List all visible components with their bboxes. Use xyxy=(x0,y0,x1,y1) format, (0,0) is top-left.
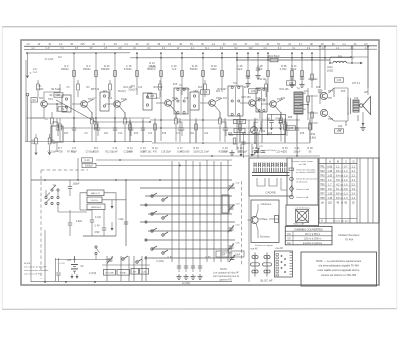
svg-text:1,35: 1,35 xyxy=(327,192,332,195)
svg-text:Les valeurs du bloc HF: Les valeurs du bloc HF xyxy=(24,266,47,269)
wire lower rail left xyxy=(25,141,152,143)
transistor TR6 xyxy=(270,98,283,107)
wire mid rail 1 xyxy=(26,117,150,119)
wire mid rail 2 xyxy=(150,119,300,121)
band switch dashed boundary xyxy=(241,181,243,265)
svg-text:R-B: R-B xyxy=(64,133,68,135)
svg-text:TK 464: TK 464 xyxy=(345,238,354,242)
wire vertical feeds from bus xyxy=(73,45,369,141)
wire output collectors xyxy=(329,88,349,121)
ground arrows oscillator xyxy=(111,200,114,231)
svg-text:R35: R35 xyxy=(288,116,293,119)
switch S1 xyxy=(45,185,59,205)
transistor TR5 xyxy=(209,97,222,106)
note antenne text xyxy=(24,262,49,276)
svg-text:GO: GO xyxy=(287,238,291,240)
label vue AV xyxy=(250,247,283,251)
svg-text:C18 25μF: C18 25μF xyxy=(161,151,172,153)
capacitor C39 4.7pF xyxy=(68,210,83,236)
antenna terminal xyxy=(26,53,32,142)
svg-text:4,7pF: 4,7pF xyxy=(95,216,102,219)
svg-text:C9 50μF: C9 50μF xyxy=(86,151,95,153)
arrows to cadre and C47 cluster xyxy=(228,119,268,158)
page right edge xyxy=(396,27,398,309)
svg-text:R25 470: R25 470 xyxy=(219,151,228,153)
svg-text:MF2: MF2 xyxy=(194,90,199,93)
svg-text:C24: C24 xyxy=(251,90,256,93)
svg-text:gamme PO.: gamme PO. xyxy=(220,279,233,282)
svg-text:C22: C22 xyxy=(204,133,209,135)
label box C24 xyxy=(249,89,258,93)
svg-text:1nF: 1nF xyxy=(172,67,177,71)
svg-text:C38: C38 xyxy=(354,98,359,100)
svg-text:1,45: 1,45 xyxy=(327,170,332,173)
svg-text:TR7: TR7 xyxy=(320,193,325,195)
svg-text:9V: 9V xyxy=(190,43,193,46)
measurement legend contents xyxy=(289,160,317,199)
svg-text:4V5: 4V5 xyxy=(80,43,85,46)
svg-text:Courant en mA: Courant en mA xyxy=(296,188,309,191)
bloc HF dashed boundary xyxy=(41,170,88,279)
label box C2 xyxy=(58,107,67,111)
svg-text:PO: PO xyxy=(287,234,291,236)
svg-text:TR1: TR1 xyxy=(320,166,325,168)
svg-text:4V: 4V xyxy=(48,43,51,46)
table bottom note xyxy=(319,218,357,222)
upper resistor/capacitor clusters with labels xyxy=(61,64,333,77)
oscillator coil L2 xyxy=(51,118,63,152)
svg-text:en voltmètre 20000Ω/V: en voltmètre 20000Ω/V xyxy=(296,171,316,174)
svg-text:1500Ω: 1500Ω xyxy=(61,67,69,71)
svg-text:C33: C33 xyxy=(337,79,342,82)
label G ON xyxy=(182,281,190,285)
AVC filter loop xyxy=(254,114,286,134)
svg-text:TR3: TR3 xyxy=(121,98,126,101)
svg-text:4,7kΩ: 4,7kΩ xyxy=(280,67,287,71)
svg-text:quantité à système: quantité à système xyxy=(303,242,323,245)
transistor legend symbol xyxy=(248,204,259,238)
wire top bus 2 xyxy=(24,48,377,51)
bloc HF connector pins xyxy=(251,253,272,277)
label CADRE xyxy=(265,191,276,195)
svg-text:C12: C12 xyxy=(118,133,123,135)
label box C36 xyxy=(335,129,344,133)
wire osc mesh xyxy=(46,180,126,246)
wire lower rail mid xyxy=(152,142,310,144)
svg-text:Tensions contin. mesur.: Tensions contin. mesur. xyxy=(292,160,314,163)
resistor R41 feed line xyxy=(236,54,330,62)
svg-text:7R: 7R xyxy=(52,185,55,188)
wire PU column xyxy=(330,57,368,64)
scan texture micro labels xyxy=(33,57,359,135)
socket view drawing xyxy=(294,207,310,225)
svg-text:C37 0,1: C37 0,1 xyxy=(352,82,361,85)
wire stubs lower xyxy=(130,88,358,156)
top bus labels row2 xyxy=(31,48,368,50)
potentiometer volume xyxy=(251,122,266,133)
svg-text:470: 470 xyxy=(153,150,158,153)
svg-text:R 36: R 36 xyxy=(281,64,287,68)
svg-text:GAMMES COUVERTES: GAMMES COUVERTES xyxy=(294,227,323,231)
svg-text:50μF: 50μF xyxy=(237,67,243,71)
svg-text:1,5MΩ: 1,5MΩ xyxy=(37,89,44,91)
svg-text:R27 150: R27 150 xyxy=(241,96,251,99)
wires transistor connections xyxy=(72,98,283,120)
wire feedback xyxy=(376,103,384,105)
svg-text:HP: HP xyxy=(364,90,368,94)
trimmer capacitors band switch xyxy=(228,183,240,251)
svg-text:10nF: 10nF xyxy=(220,254,226,257)
svg-text:C-45 10nF: C-45 10nF xyxy=(265,150,276,152)
base bias resistors xyxy=(37,80,268,97)
svg-text:C32 4n7: C32 4n7 xyxy=(276,151,285,153)
wire rail 134 xyxy=(228,134,286,136)
wire TR1 collector xyxy=(44,84,60,101)
band switch contacts xyxy=(145,193,168,259)
svg-text:R15 39k: R15 39k xyxy=(154,86,164,89)
svg-text:Base: Base xyxy=(262,218,268,221)
svg-text:10nF: 10nF xyxy=(112,150,118,153)
svg-text:C22 10nF: C22 10nF xyxy=(199,151,210,153)
capacitor C40 xyxy=(90,209,106,236)
svg-text:C14: C14 xyxy=(138,87,143,89)
svg-text:TR1: TR1 xyxy=(39,97,44,100)
svg-text:6,8kΩ: 6,8kΩ xyxy=(310,136,317,139)
svg-text:C 16: C 16 xyxy=(126,64,132,68)
wire AGC xyxy=(56,100,151,123)
label box C19 xyxy=(201,90,210,94)
cadre box xyxy=(249,158,292,196)
svg-text:1V: 1V xyxy=(177,48,180,50)
svg-text:C: C xyxy=(345,159,347,163)
svg-text:mesure vol. gen.: mesure vol. gen. xyxy=(333,220,350,223)
band switch side box xyxy=(222,195,229,213)
svg-text:C12 4n7: C12 4n7 xyxy=(124,151,133,153)
svg-text:C 40: C 40 xyxy=(94,225,100,228)
page bottom edge xyxy=(2,308,397,311)
output bias network xyxy=(311,45,323,130)
transistor TR2 xyxy=(81,98,94,107)
svg-text:187 m à 569 m: 187 m à 569 m xyxy=(305,234,320,236)
svg-text:V: V xyxy=(30,71,32,75)
svg-text:1,05: 1,05 xyxy=(327,174,332,177)
svg-text:C 34: C 34 xyxy=(291,64,297,68)
svg-text:5600Ω: 5600Ω xyxy=(190,67,198,71)
svg-text:R-C: R-C xyxy=(58,57,62,59)
svg-text:1100 m à 2000 m: 1100 m à 2000 m xyxy=(304,238,322,240)
svg-text:vue AV: vue AV xyxy=(250,248,258,251)
svg-text:Courant en μA: Courant en μA xyxy=(296,196,309,199)
svg-text:R41 50μF: R41 50μF xyxy=(268,54,280,58)
resistor R40a xyxy=(302,88,309,120)
coupling coil L5b xyxy=(143,93,152,110)
measurement legend box xyxy=(287,158,318,205)
svg-text:TR5: TR5 xyxy=(216,97,221,100)
wire bottom bus xyxy=(31,281,232,283)
svg-text:à la désensibilisation réglabl: à la désensibilisation réglable TK 464 xyxy=(318,265,359,268)
svg-text:R 40: R 40 xyxy=(104,64,110,68)
label BEO GNC xyxy=(221,253,235,263)
svg-text:C17: C17 xyxy=(176,133,181,135)
battery column 2 xyxy=(56,258,66,281)
svg-text:50μF: 50μF xyxy=(291,67,297,71)
svg-text:4700: 4700 xyxy=(57,150,63,153)
svg-text:R38: R38 xyxy=(300,133,305,135)
svg-text:TR4: TR4 xyxy=(320,180,325,182)
svg-text:TR5: TR5 xyxy=(320,184,325,186)
svg-text:R12 1k: R12 1k xyxy=(105,151,113,153)
svg-text:C 52: C 52 xyxy=(205,256,211,259)
svg-text:10nF: 10nF xyxy=(237,130,243,133)
svg-text:(51kΩ): (51kΩ) xyxy=(148,65,156,68)
svg-text:C-A: C-A xyxy=(33,71,37,74)
resistor R4 xyxy=(31,134,38,155)
transistor TR4 xyxy=(165,97,178,106)
svg-text:numéro est inférieur à 7.001.3: numéro est inférieur à 7.001.305 xyxy=(321,274,357,277)
svg-text:TR7: TR7 xyxy=(328,98,333,100)
transistor mixer xyxy=(249,100,256,107)
table grid xyxy=(319,158,373,223)
svg-text:R22 680: R22 680 xyxy=(181,151,190,153)
svg-text:4V: 4V xyxy=(146,43,149,46)
driver transformer T4 xyxy=(294,87,303,115)
svg-text:TR1: TR1 xyxy=(48,98,53,101)
svg-text:R15: R15 xyxy=(173,84,178,86)
svg-text:4,5pF: 4,5pF xyxy=(76,220,83,223)
svg-text:2700Ω: 2700Ω xyxy=(124,67,132,71)
svg-text:C30: C30 xyxy=(289,82,294,85)
coupling coil L4 xyxy=(100,92,109,111)
svg-text:9V: 9V xyxy=(80,265,83,268)
svg-text:G (ON): G (ON) xyxy=(182,281,190,285)
oscillator coil box L6 xyxy=(87,197,102,203)
transistor legend box xyxy=(251,200,279,243)
bloc HF connector body xyxy=(275,251,293,277)
svg-text:PADDING: PADDING xyxy=(91,206,101,209)
antenna input labels xyxy=(31,94,61,102)
nota box text xyxy=(316,260,361,277)
svg-text:R32: R32 xyxy=(281,98,286,100)
svg-text:TONAL.: TONAL. xyxy=(120,272,128,275)
IF transformer T2 xyxy=(228,81,243,116)
note text contacts bloc HF xyxy=(213,268,239,282)
svg-text:reste valable pour les apparei: reste valable pour les appareils dont le xyxy=(318,269,360,272)
svg-text:R 23: R 23 xyxy=(211,64,217,68)
output transformer T5 xyxy=(348,97,359,115)
svg-text:C 51: C 51 xyxy=(167,256,173,259)
svg-text:B: B xyxy=(337,159,339,163)
svg-text:BLOC HF: BLOC HF xyxy=(260,279,272,283)
label box C15 xyxy=(148,94,157,98)
svg-text:R44: R44 xyxy=(328,65,333,69)
coupling coil L6b xyxy=(190,92,199,110)
svg-text:R22: R22 xyxy=(190,133,195,135)
svg-text:C1 12pF: C1 12pF xyxy=(45,59,54,61)
wire top bus 4 xyxy=(130,57,352,59)
svg-text:vol. 468: vol. 468 xyxy=(299,164,307,166)
svg-text:C-10: C-10 xyxy=(84,159,90,162)
svg-text:TR2: TR2 xyxy=(320,171,325,173)
wires band switch rails xyxy=(140,188,235,258)
svg-text:MAILLOT: MAILLOT xyxy=(91,192,101,195)
svg-text:DM400: DM400 xyxy=(101,67,110,71)
page left edge xyxy=(1,28,3,309)
svg-text:μA: μA xyxy=(321,201,324,204)
svg-text:51kΩ(?): 51kΩ(?) xyxy=(118,91,126,93)
svg-text:Emetteur: Emetteur xyxy=(260,236,270,239)
label box C35 xyxy=(287,126,296,130)
svg-text:C.(ON): C.(ON) xyxy=(89,273,97,275)
stage bias labels xyxy=(51,78,361,125)
svg-text:4V: 4V xyxy=(133,48,136,50)
svg-text:C6 10nF: C6 10nF xyxy=(48,151,57,153)
svg-text:R 16: R 16 xyxy=(192,64,198,68)
svg-text:C19: C19 xyxy=(203,91,208,94)
svg-text:TR3: TR3 xyxy=(320,175,325,177)
svg-text:10nF: 10nF xyxy=(235,254,241,257)
svg-text:120: 120 xyxy=(328,201,333,204)
labels 10nF boxes xyxy=(216,251,244,257)
svg-text:CADRE: CADRE xyxy=(265,191,276,195)
svg-text:R19 1k: R19 1k xyxy=(182,88,190,91)
label box C3 xyxy=(54,93,63,97)
cadre connector drawing xyxy=(252,163,290,191)
svg-text:12pF: 12pF xyxy=(118,218,124,221)
transistor TR3 xyxy=(114,98,127,107)
svg-text:NOTA. — Le potentiomètre spéci: NOTA. — Le potentiomètre spécial tenant xyxy=(316,260,361,263)
svg-text:1nF: 1nF xyxy=(33,69,38,71)
svg-text:NOTA :: NOTA : xyxy=(24,262,31,265)
table contents xyxy=(320,159,355,204)
svg-text:VOLUME: VOLUME xyxy=(105,273,114,275)
resistor R6 xyxy=(48,134,57,155)
tuning gang C41 xyxy=(118,218,128,224)
bottom labels row xyxy=(48,151,285,153)
svg-text:6μF: 6μF xyxy=(338,128,343,131)
legend labels xyxy=(255,203,279,247)
svg-text:(FI): (FI) xyxy=(248,132,252,134)
label C ON xyxy=(89,273,97,275)
svg-text:100pF: 100pF xyxy=(72,183,80,186)
svg-text:C 20: C 20 xyxy=(171,64,177,68)
svg-text:2V: 2V xyxy=(322,48,325,50)
svg-text:vue de dessous: vue de dessous xyxy=(295,207,310,209)
switch on battery xyxy=(95,246,100,260)
svg-text:1V2: 1V2 xyxy=(248,48,253,50)
wire left column xyxy=(26,60,31,282)
nota box xyxy=(301,252,377,286)
IF transformer T3 xyxy=(256,88,267,112)
misc upper labels xyxy=(103,62,293,119)
svg-text:R30 12k: R30 12k xyxy=(258,78,268,81)
transistor TR8 xyxy=(320,109,333,121)
wire TR1 base xyxy=(31,102,44,118)
svg-text:Premier et support: Premier et support xyxy=(255,244,273,247)
oscillator coil box L7 xyxy=(87,204,105,210)
svg-text:Médiator Récepteur: Médiator Récepteur xyxy=(339,234,360,237)
svg-text:R4 51kΩ: R4 51kΩ xyxy=(51,88,61,91)
svg-text:C (ON): C (ON) xyxy=(156,260,164,263)
svg-text:Boîtier OAF: Boîtier OAF xyxy=(294,223,306,226)
svg-text:R11: R11 xyxy=(104,133,109,135)
wire top bus 3 xyxy=(26,52,130,54)
lower resistors and capacitors xyxy=(59,118,312,142)
wire long rail xyxy=(140,155,320,157)
svg-text:R10: R10 xyxy=(108,98,113,100)
svg-text:C21: C21 xyxy=(223,98,228,100)
svg-text:3V: 3V xyxy=(90,48,93,50)
svg-text:R8 5,1k: R8 5,1k xyxy=(91,88,100,91)
svg-text:avec le circuit P.O.: avec le circuit P.O. xyxy=(24,273,42,276)
svg-text:C-P: C-P xyxy=(46,48,50,50)
PU pickup input xyxy=(329,55,363,64)
svg-text:2V: 2V xyxy=(321,43,324,46)
svg-text:Rel: Rel xyxy=(287,243,291,245)
svg-text:5V: 5V xyxy=(277,43,280,46)
transistor TR1 xyxy=(41,98,54,107)
svg-text:R18: R18 xyxy=(162,133,167,135)
label BLOC HF xyxy=(260,279,272,283)
capacitors to ground cluster xyxy=(167,256,211,280)
svg-text:1,35: 1,35 xyxy=(327,197,332,200)
label box C30 xyxy=(287,81,296,85)
svg-text:D: D xyxy=(353,159,355,163)
wire IF takeoff labels xyxy=(78,158,232,180)
page top edge xyxy=(2,25,397,28)
svg-text:10kΩ: 10kΩ xyxy=(210,67,216,71)
wires band switch verticals xyxy=(172,160,228,262)
lower component labels xyxy=(57,147,313,153)
svg-text:R21: R21 xyxy=(216,91,221,93)
svg-text:sont mesurées ensemble: sont mesurées ensemble xyxy=(24,269,49,272)
volume tonalite switch cluster xyxy=(102,256,150,281)
svg-text:47pF: 47pF xyxy=(94,231,100,234)
svg-text:50nF: 50nF xyxy=(254,122,259,124)
svg-text:1kΩ: 1kΩ xyxy=(302,109,306,111)
svg-text:A: A xyxy=(329,159,331,163)
coupling coil L3 xyxy=(62,95,71,112)
svg-text:C 28: C 28 xyxy=(257,64,263,68)
svg-text:R14: R14 xyxy=(134,133,139,135)
socket view box xyxy=(286,205,319,226)
svg-text:vue AR: vue AR xyxy=(275,247,283,250)
svg-text:R34 1k5: R34 1k5 xyxy=(280,88,290,91)
svg-text:R17 2k2: R17 2k2 xyxy=(143,151,152,153)
svg-text:en 100 points: en 100 points xyxy=(296,181,307,184)
svg-text:R29: R29 xyxy=(244,87,249,89)
wire legends column xyxy=(248,120,250,282)
oscillator coil box L5 xyxy=(87,190,104,196)
svg-text:NOTA :: NOTA : xyxy=(220,268,228,271)
svg-text:TR4: TR4 xyxy=(172,97,177,100)
transistor TR7 xyxy=(320,90,333,100)
svg-text:4F1: 4F1 xyxy=(103,90,108,93)
svg-text:R 3: R 3 xyxy=(86,64,91,68)
svg-text:1500Ω: 1500Ω xyxy=(83,67,91,71)
svg-text:R20: R20 xyxy=(198,87,203,89)
battery 9V xyxy=(67,256,84,279)
svg-text:C25: C25 xyxy=(256,98,261,100)
wire output pair xyxy=(300,96,318,113)
loudspeaker HP xyxy=(360,90,371,131)
wire battery rail xyxy=(45,230,110,281)
label mediator recepteur xyxy=(339,234,360,242)
wire TR1 stage loop xyxy=(47,103,62,112)
emitter resistors and bypass capacitors xyxy=(51,112,290,142)
svg-text:Collecteur: Collecteur xyxy=(261,203,272,206)
svg-text:0,65: 0,65 xyxy=(327,165,332,168)
IF transformer T1 xyxy=(174,83,188,114)
